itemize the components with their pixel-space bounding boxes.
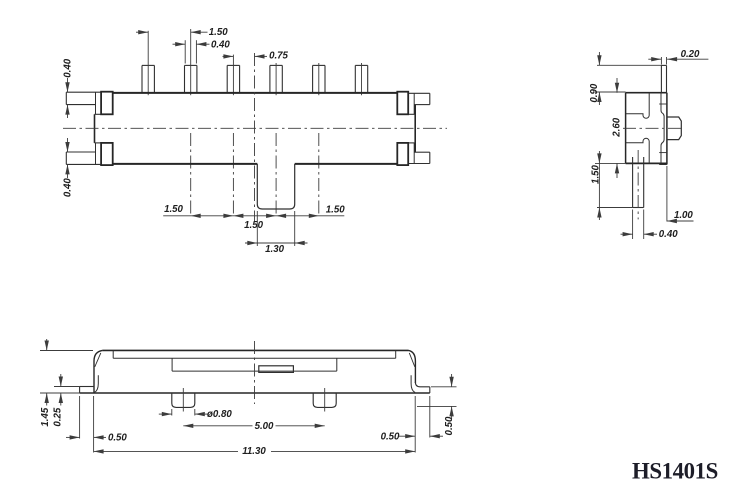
svg-text:1.50: 1.50	[590, 164, 601, 183]
svg-text:2.60: 2.60	[611, 117, 622, 137]
svg-text:0.40: 0.40	[211, 40, 230, 51]
svg-text:0.75: 0.75	[269, 50, 288, 61]
svg-text:1.50: 1.50	[244, 220, 263, 231]
svg-text:1.45: 1.45	[40, 407, 51, 426]
svg-text:0.90: 0.90	[589, 83, 600, 102]
svg-text:1.50: 1.50	[164, 204, 183, 215]
svg-text:0.50: 0.50	[108, 432, 127, 443]
svg-text:1.30: 1.30	[265, 244, 284, 255]
svg-text:0.50: 0.50	[381, 432, 400, 443]
svg-text:0.40: 0.40	[63, 58, 74, 77]
svg-text:1.50: 1.50	[326, 204, 345, 215]
svg-text:0.40: 0.40	[659, 229, 678, 240]
svg-text:11.30: 11.30	[242, 446, 266, 457]
svg-text:0.50: 0.50	[444, 416, 455, 435]
svg-text:1.50: 1.50	[209, 27, 228, 38]
svg-text:1.00: 1.00	[674, 210, 693, 221]
svg-text:0.40: 0.40	[63, 178, 74, 197]
svg-text:5.00: 5.00	[255, 421, 274, 432]
svg-text:0.20: 0.20	[681, 49, 700, 60]
svg-text:0.25: 0.25	[53, 407, 64, 426]
svg-text:HS1401S: HS1401S	[632, 459, 718, 484]
svg-text:ø0.80: ø0.80	[207, 409, 232, 420]
